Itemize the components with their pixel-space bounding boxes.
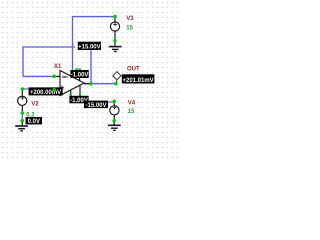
svg-text:-15.00V: -15.00V xyxy=(85,103,106,109)
voltage readout label 0.0V xyxy=(26,117,42,125)
wire op-amp output to OUT port xyxy=(84,83,116,85)
op-amp X1 xyxy=(54,69,90,95)
wire V3 top to op-amp V+ supply pin xyxy=(73,17,115,70)
svg-text:15: 15 xyxy=(126,25,133,31)
op-amp V- supply pin markers xyxy=(70,94,82,96)
svg-text:+200.00mV: +200.00mV xyxy=(30,90,61,96)
ground below V3 xyxy=(109,47,122,52)
node V4 top terminal xyxy=(112,100,116,104)
svg-text:X1: X1 xyxy=(54,64,62,70)
voltage source V2 xyxy=(18,91,27,113)
node V2 minus terminal xyxy=(21,111,25,115)
voltage source V4 xyxy=(110,103,119,121)
wire feedback vertical drop to output node xyxy=(90,50,92,83)
red crossing mark at supply/feedback wire crossing xyxy=(72,44,73,46)
op-amp X1 inverting input minus symbol xyxy=(62,76,68,78)
OUT port diamond xyxy=(113,72,121,84)
node V2 ground end xyxy=(21,119,25,123)
node op-amp output / feedback junction xyxy=(89,82,93,86)
svg-text:V3: V3 xyxy=(126,16,134,22)
svg-text:15: 15 xyxy=(128,109,135,115)
node V3 plus terminal xyxy=(113,15,117,19)
svg-text:V2: V2 xyxy=(31,101,39,107)
node V2 plus terminal xyxy=(21,87,25,91)
voltage source V3 xyxy=(110,18,119,46)
svg-text:OUT: OUT xyxy=(127,66,140,72)
node op-amp non-inverting input xyxy=(52,88,56,92)
voltage readout label -1.00V at V+ pin xyxy=(70,70,88,79)
node V4 ground end xyxy=(112,119,116,123)
V4 polarity plus symbol xyxy=(113,106,117,110)
node OUT port xyxy=(114,82,118,86)
svg-text:V4: V4 xyxy=(128,101,136,107)
wire V2 minus to ground xyxy=(21,113,23,121)
wire feedback: inverting input up and right xyxy=(23,47,75,76)
svg-text:0.0V: 0.0V xyxy=(28,119,40,125)
voltage readout label +15.00V xyxy=(78,42,101,51)
wire to op-amp inverting input xyxy=(23,75,54,77)
wire V2 plus to op-amp non-inverting input xyxy=(22,88,54,90)
op-amp V+ supply pin markers xyxy=(75,68,81,70)
svg-text:+15.00V: +15.00V xyxy=(78,44,101,50)
op-amp X1 non-inverting input plus symbol xyxy=(60,86,64,90)
node op-amp inverting input xyxy=(52,75,56,79)
voltage readout label -1.00V at V- pin xyxy=(69,96,88,104)
svg-text:+201.01mV: +201.01mV xyxy=(122,78,153,84)
ground below V2 xyxy=(15,121,28,131)
node V3 minus terminal xyxy=(113,39,117,43)
wire op-amp V- supply pin to V4 xyxy=(80,96,114,103)
voltage readout label +200.00mV xyxy=(29,87,63,95)
V2 polarity plus symbol xyxy=(21,96,25,100)
voltage readout label +201.01mV xyxy=(122,74,155,84)
ground below V4 xyxy=(108,121,121,130)
svg-text:-1.00V: -1.00V xyxy=(71,73,89,79)
V3 polarity plus symbol xyxy=(113,22,117,26)
voltage readout label -15.00V xyxy=(84,101,108,109)
